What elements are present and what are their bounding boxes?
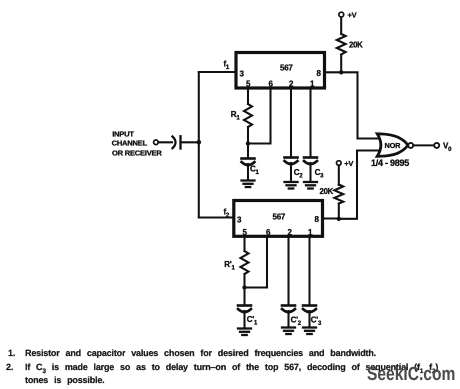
wire pin3 bottom 567 to left bus — [199, 216, 234, 218]
wire C'2 to ground — [287, 311, 289, 327]
node R1/C1/pin6 junction — [246, 141, 250, 145]
resistor R3 20K (lower supply) — [320, 185, 344, 204]
capacitor C'3 — [303, 306, 322, 328]
node junction at R/pin8 — [339, 70, 343, 74]
wire pin3 top 567 to left bus — [199, 71, 236, 73]
svg-text:567: 567 — [280, 63, 293, 72]
input terminal circle — [154, 140, 159, 145]
svg-text:R'1: R'1 — [224, 260, 235, 272]
wire R'1 bottom to junction — [243, 274, 245, 288]
ground (C3) — [304, 182, 317, 189]
svg-text:V0: V0 — [443, 142, 452, 154]
capacitor C1 — [242, 159, 260, 177]
node junction lower R/pin8 — [337, 217, 341, 221]
wire R lower bottom to node — [338, 204, 340, 219]
ground (C'3) — [303, 328, 316, 335]
wire node to pin 8 of top 567 — [324, 71, 341, 73]
svg-text:+V: +V — [344, 159, 353, 168]
wire junction down to C'1 — [243, 288, 245, 306]
svg-text:NOR: NOR — [385, 141, 402, 150]
svg-text:1/4 - 9895: 1/4 - 9895 — [371, 158, 409, 168]
wire C'3 to ground — [308, 311, 310, 327]
wire C1 to ground — [247, 164, 249, 180]
capacitor C'1 — [238, 306, 258, 327]
svg-text:INPUT: INPUT — [112, 129, 134, 138]
node R'1/C'1/pin6 junction — [242, 285, 246, 289]
power terminal +V (top) — [339, 11, 357, 20]
svg-text:C3: C3 — [315, 168, 325, 180]
wire junction down to C1 — [247, 144, 249, 159]
wire NOR output to terminal — [413, 144, 434, 146]
wire input terminal to coupling cap — [158, 141, 172, 143]
wire C3 to ground — [309, 163, 311, 182]
svg-text:C1: C1 — [250, 165, 260, 177]
svg-text:C2: C2 — [294, 168, 304, 180]
capacitor C2 — [285, 158, 304, 180]
svg-text:CHANNEL: CHANNEL — [112, 138, 148, 147]
wire node to pin 8 of bottom 567 — [323, 217, 339, 219]
ground (C'1) — [238, 329, 251, 336]
note 1 — [0, 345, 460, 347]
ground (C1) — [242, 181, 255, 188]
ground (C'2) — [282, 328, 295, 335]
note 2 — [6, 363, 13, 372]
IC U1 567 tone decoder (top, f1) — [236, 53, 325, 89]
label INPUT CHANNEL OR RECEIVER — [112, 129, 163, 157]
wire pin2 bottom 567 to C'2 — [287, 236, 289, 305]
svg-text:C'2: C'2 — [291, 316, 302, 328]
svg-text:567: 567 — [273, 212, 286, 221]
capacitor C'2 — [282, 306, 302, 328]
svg-text:C'3: C'3 — [311, 316, 322, 328]
svg-text:+V: +V — [348, 11, 357, 20]
wire +V lower to R top — [338, 165, 340, 185]
svg-text:OR RECEIVER: OR RECEIVER — [112, 149, 162, 158]
IC U2 567 tone decoder (bottom, f2) — [234, 201, 323, 237]
power terminal +V (lower) — [337, 159, 354, 168]
watermark SeekIC.com — [367, 368, 455, 382]
svg-text:C'1: C'1 — [247, 315, 258, 327]
wire node to NOR lower input — [339, 151, 380, 219]
wire pin2 top 567 to C2 — [290, 88, 292, 157]
wire left input bus — [198, 72, 200, 218]
output terminal V0 — [434, 142, 452, 154]
NOR gate U3 (1/4 - 9895) — [371, 134, 413, 168]
wire R bottom to node — [340, 55, 342, 73]
svg-text:20K: 20K — [349, 41, 363, 50]
wire node to NOR upper input — [341, 72, 379, 138]
wire junction to pin 6 bottom — [245, 236, 268, 287]
resistor R1 — [231, 104, 252, 127]
svg-text:20K: 20K — [320, 187, 334, 196]
wire pin1 bottom 567 to C'3 — [308, 236, 310, 305]
resistor R'1 — [224, 251, 248, 274]
wire C'1 to ground — [243, 311, 245, 328]
capacitor C3 — [304, 158, 324, 180]
resistor R2 20K (top supply) — [337, 34, 363, 55]
wire junction to pin 6 — [248, 88, 271, 144]
svg-text:R1: R1 — [231, 110, 241, 122]
wire R1 bottom to junction — [247, 127, 249, 144]
node input junction — [197, 140, 202, 145]
wire coupling cap to input bus — [181, 141, 199, 143]
wire pin5 bottom 567 to R'1 — [243, 236, 245, 251]
wire pin5 top 567 to R1 — [247, 88, 249, 104]
wire C2 to ground — [290, 163, 292, 182]
svg-text:f1: f1 — [224, 60, 230, 72]
wire +V to R top — [340, 17, 342, 34]
capacitor coupling (input) — [173, 136, 181, 148]
ground (C2) — [285, 182, 298, 189]
wire pin1 top 567 to C3 — [309, 88, 311, 157]
